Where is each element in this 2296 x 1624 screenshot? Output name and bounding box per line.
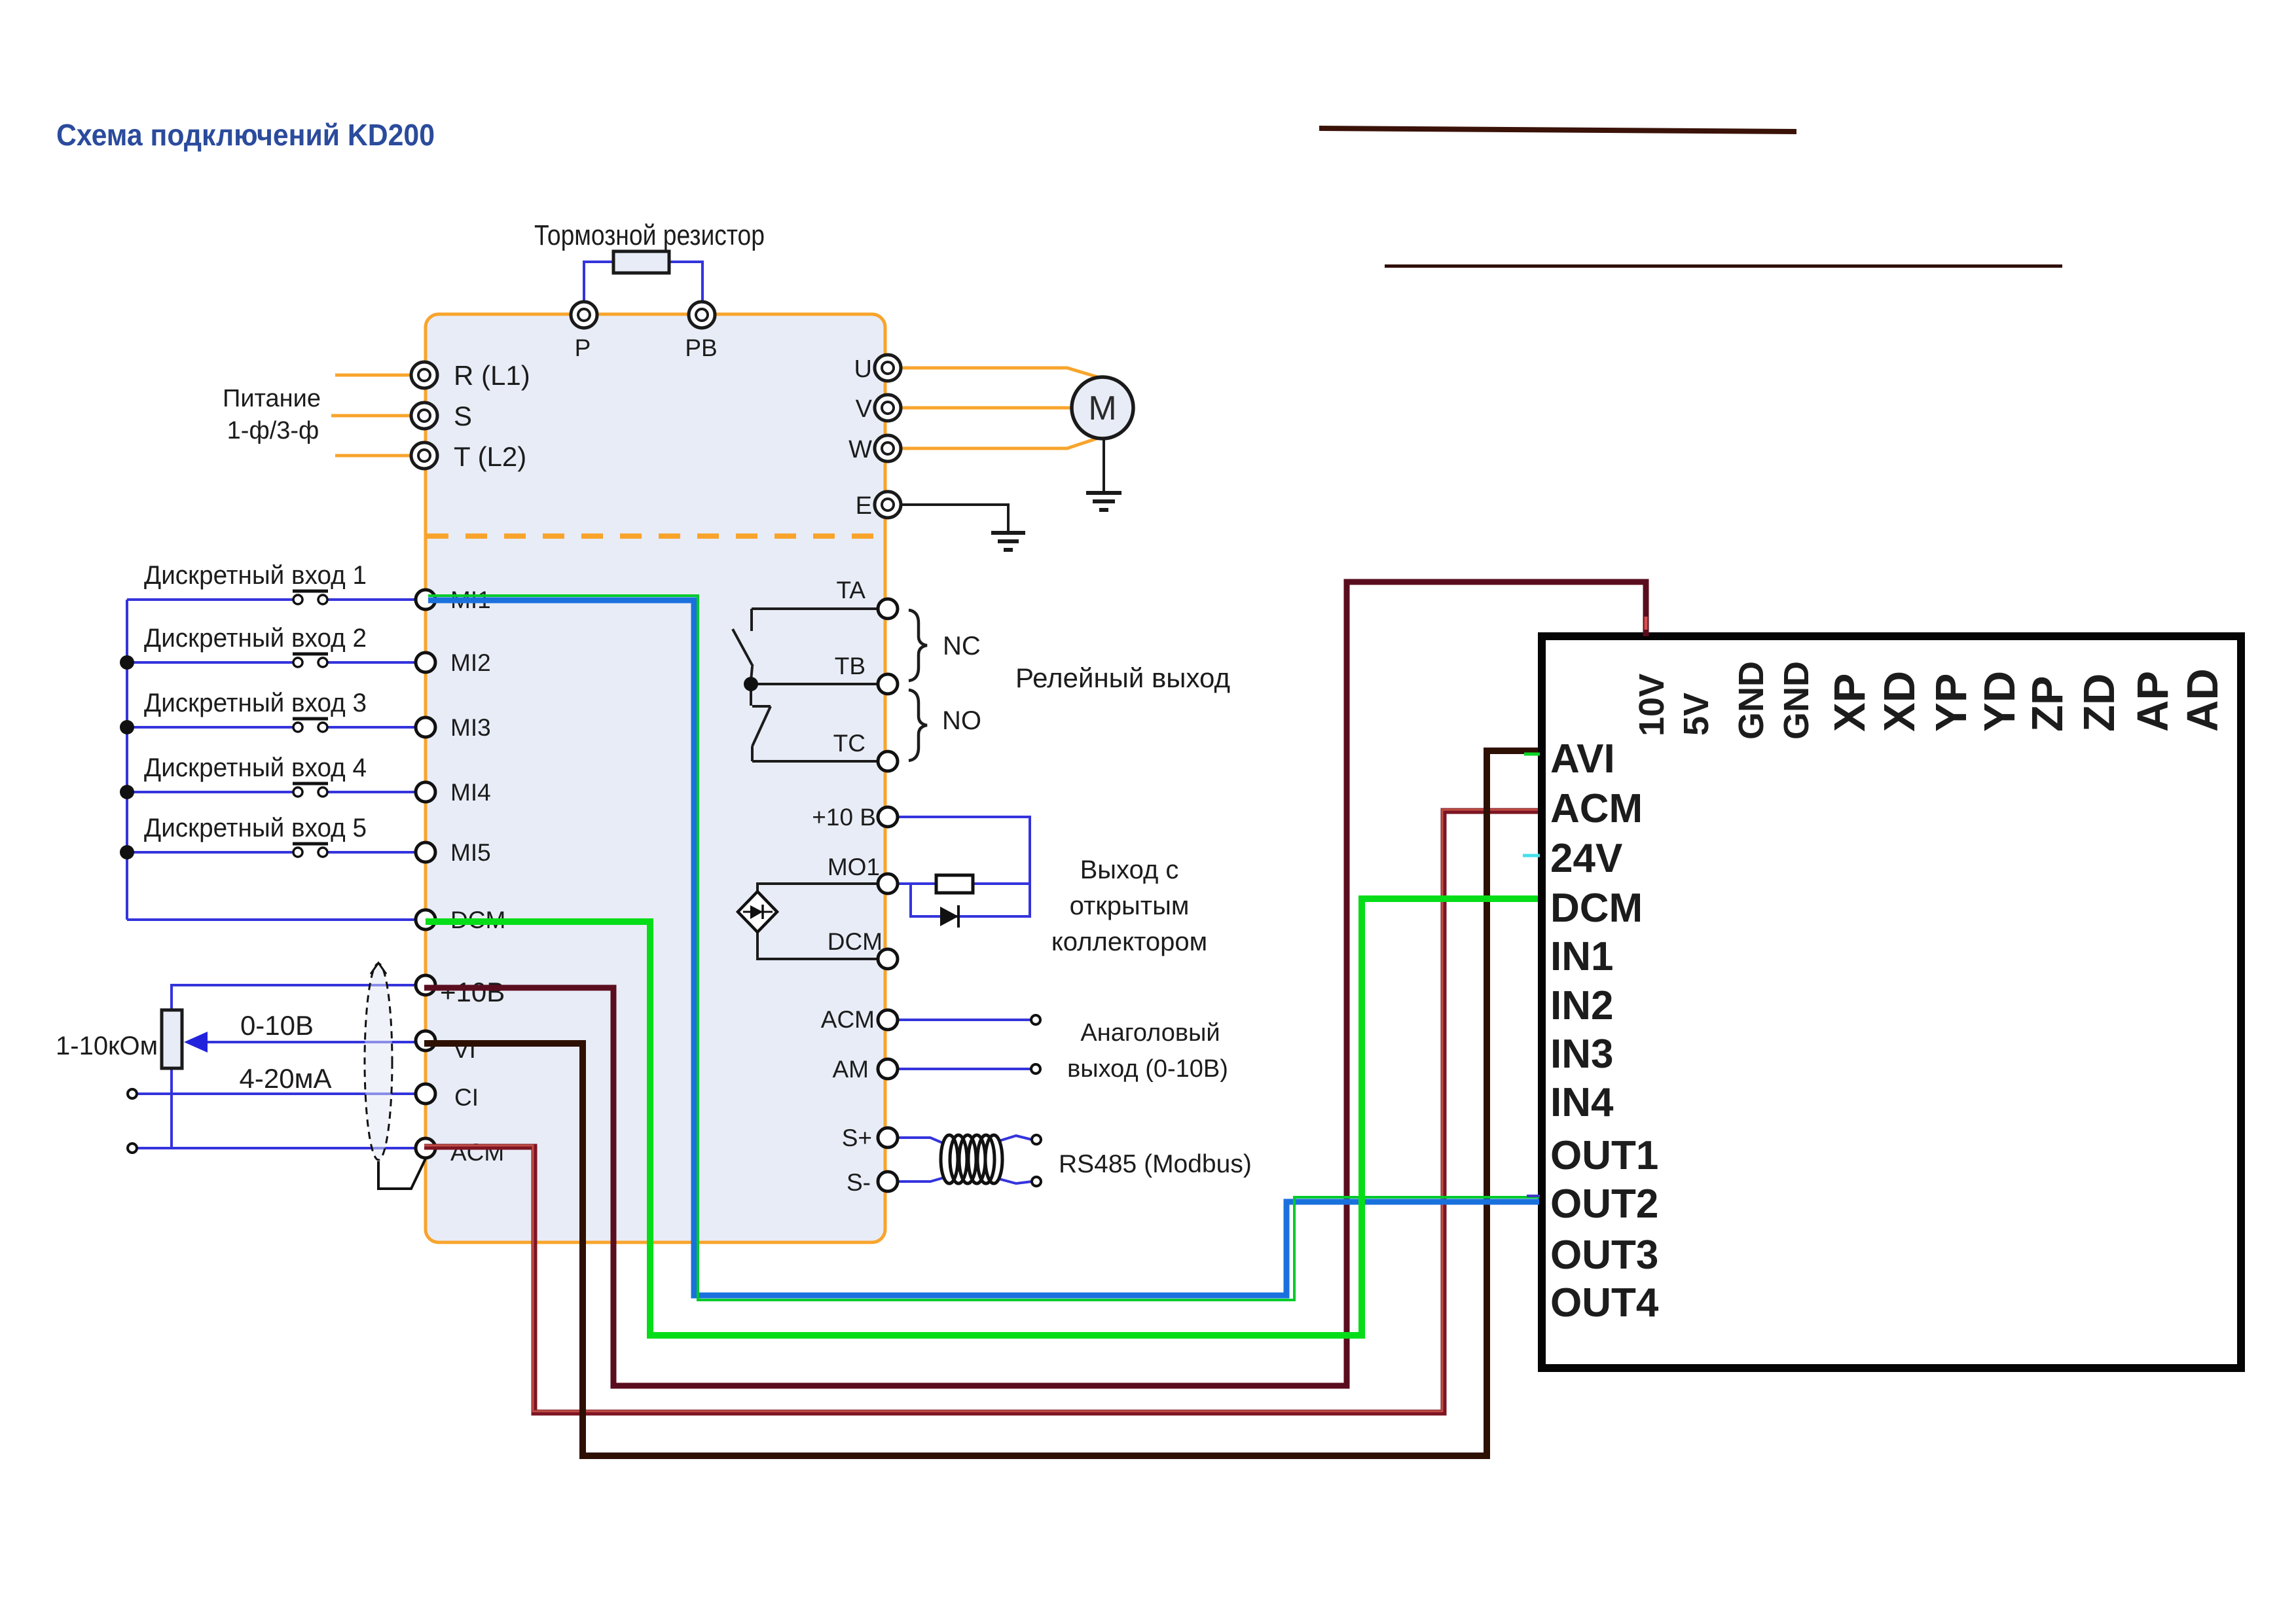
svg-text:NO: NO	[942, 706, 981, 735]
svg-text:XP: XP	[1825, 674, 1874, 732]
svg-text:MI5: MI5	[450, 839, 491, 866]
svg-text:PB: PB	[685, 334, 717, 361]
svg-text:OUT1: OUT1	[1550, 1133, 1658, 1178]
svg-text:Тормозной резистор: Тормозной резистор	[534, 219, 765, 251]
svg-text:0-10В: 0-10В	[240, 1010, 314, 1041]
svg-text:открытым: открытым	[1070, 892, 1190, 920]
svg-text:24V: 24V	[1550, 836, 1622, 881]
svg-text:S: S	[454, 401, 472, 431]
svg-text:ACM: ACM	[450, 1139, 504, 1166]
svg-text:DCM: DCM	[828, 928, 883, 955]
svg-text:4-20мА: 4-20мА	[240, 1063, 332, 1094]
svg-text:Схема подключений KD200: Схема подключений KD200	[56, 118, 435, 152]
svg-text:CI: CI	[454, 1084, 479, 1111]
svg-text:MI4: MI4	[450, 779, 491, 806]
svg-text:1-ф/3-ф: 1-ф/3-ф	[227, 417, 319, 444]
svg-text:ZP: ZP	[2023, 676, 2072, 732]
svg-text:MI3: MI3	[450, 714, 491, 741]
svg-text:E: E	[856, 492, 872, 520]
svg-text:YP: YP	[1927, 674, 1976, 732]
svg-text:S+: S+	[842, 1125, 872, 1151]
svg-text:IN1: IN1	[1550, 934, 1613, 979]
svg-text:10V: 10V	[1632, 674, 1671, 736]
svg-text:TB: TB	[835, 653, 866, 679]
svg-text:OUT2: OUT2	[1550, 1182, 1658, 1227]
svg-text:MO1: MO1	[828, 854, 880, 880]
svg-text:OUT3: OUT3	[1550, 1233, 1658, 1278]
svg-text:Дискретный вход 4: Дискретный вход 4	[144, 753, 367, 782]
svg-text:+10В: +10В	[440, 977, 505, 1007]
svg-text:5V: 5V	[1677, 693, 1716, 736]
svg-text:Дискретный вход 2: Дискретный вход 2	[144, 624, 367, 653]
svg-text:RS485 (Modbus): RS485 (Modbus)	[1059, 1150, 1252, 1178]
svg-text:P: P	[575, 334, 591, 361]
svg-text:Питание: Питание	[223, 385, 321, 412]
svg-text:Дискретный вход 5: Дискретный вход 5	[144, 814, 367, 842]
svg-text:ACM: ACM	[1550, 786, 1643, 831]
svg-text:NC: NC	[943, 632, 981, 660]
svg-text:TA: TA	[836, 577, 866, 604]
svg-text:выход (0-10В): выход (0-10В)	[1067, 1055, 1228, 1083]
svg-text:Релейный выход: Релейный выход	[1015, 662, 1230, 693]
svg-text:коллектором: коллектором	[1051, 928, 1207, 956]
svg-text:OUT4: OUT4	[1550, 1280, 1659, 1326]
svg-text:Дискретный вход 3: Дискретный вход 3	[144, 689, 367, 717]
svg-text:V: V	[856, 395, 873, 423]
svg-text:AVI: AVI	[1550, 736, 1615, 782]
svg-text:1-10кОм: 1-10кОм	[56, 1032, 158, 1060]
svg-text:IN2: IN2	[1550, 983, 1613, 1028]
svg-text:ZD: ZD	[2075, 674, 2124, 732]
svg-text:Выход с: Выход с	[1080, 856, 1179, 884]
svg-text:ACM: ACM	[821, 1006, 875, 1033]
svg-text:XD: XD	[1875, 671, 1924, 732]
svg-text:R (L1): R (L1)	[454, 360, 530, 391]
svg-text:IN3: IN3	[1550, 1032, 1613, 1077]
svg-text:AP: AP	[2128, 671, 2178, 732]
svg-text:M: M	[1088, 389, 1116, 427]
svg-text:TC: TC	[833, 730, 866, 757]
svg-text:T (L2): T (L2)	[454, 441, 526, 472]
svg-text:AD: AD	[2178, 668, 2227, 732]
svg-text:Анаголовый: Анаголовый	[1080, 1019, 1220, 1047]
svg-text:IN4: IN4	[1550, 1080, 1614, 1125]
svg-text:+10 В: +10 В	[812, 804, 876, 831]
svg-text:YD: YD	[1975, 671, 2024, 732]
svg-text:GND: GND	[1777, 661, 1816, 740]
svg-text:MI2: MI2	[450, 649, 491, 676]
svg-text:S-: S-	[847, 1169, 871, 1196]
svg-text:GND: GND	[1732, 661, 1771, 740]
svg-text:W: W	[848, 436, 872, 463]
svg-text:AM: AM	[833, 1056, 869, 1083]
svg-text:Дискретный вход 1: Дискретный вход 1	[144, 561, 367, 590]
svg-text:DCM: DCM	[1550, 886, 1643, 931]
svg-text:U: U	[854, 355, 872, 383]
